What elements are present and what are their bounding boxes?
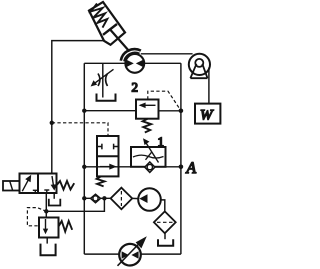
wire (left frame vertical): [83, 63, 85, 254]
check valve (under valve 1): diamond + ball: [145, 162, 155, 173]
hydraulic motor M: [125, 54, 144, 73]
node (pilot tap on cylinder line): [50, 121, 54, 125]
spring (2/2 valve): [97, 176, 105, 186]
spring (cylinder): [91, 4, 108, 28]
left position: arrow P->A: [22, 176, 30, 191]
pilot line (sequence valve, dashed): [27, 208, 46, 226]
tank (throttle): [97, 94, 116, 101]
rope to weight: [208, 68, 210, 104]
spring (3/2 valve): [57, 181, 75, 190]
wire (pilot line to cylinder): [52, 41, 105, 174]
wire (main mid line): [84, 166, 181, 168]
throttle valve (top left, with tank): [102, 63, 104, 97]
right position: arrow A->T: [52, 176, 54, 187]
wire (3/2 bottom port down): [45, 193, 47, 218]
relief valve 2: [136, 100, 159, 119]
pilot line (valve 2, dashed): [148, 91, 181, 110]
svg-text:2: 2: [132, 80, 139, 95]
wire (filter to charge pump): [132, 197, 139, 199]
wire (bottom right): [141, 253, 181, 255]
variable displacement pump: [119, 244, 141, 266]
pulley: [189, 54, 210, 75]
svg-text:A: A: [186, 160, 197, 177]
filter (suction, right): [154, 211, 176, 233]
right position: blocked port: [44, 189, 49, 191]
node (suction / bypass): [102, 196, 106, 200]
piston: [103, 24, 117, 35]
rope (motor to pulley): [141, 53, 193, 55]
pilot line (dashed, to 2/2 valve): [52, 123, 108, 136]
manual 3/2 directional valve: [20, 174, 57, 194]
cylinder C (spring-return, inclined): [89, 2, 130, 52]
wire (bypass to suction line): [46, 198, 104, 211]
wire (suction line): [84, 197, 110, 199]
swash arc (variable-displacement linkage): [121, 49, 141, 61]
wire (valve2 outlet): [159, 110, 181, 112]
pilot-operated 2/2 valve: [97, 136, 119, 176]
sequence valve (bottom left): [39, 218, 59, 238]
node (left frame / suction): [82, 196, 86, 200]
wire (motor right to frame): [144, 62, 181, 64]
tank (sequence valve): [46, 238, 48, 244]
wire (charge pump suction): [161, 200, 165, 211]
blocked ports (top position): [97, 146, 102, 148]
filter (charge line): [111, 188, 133, 210]
node (left frame / valve2 inlet): [82, 109, 86, 113]
spring (valve 2): [143, 119, 152, 133]
tank (suction filter): [164, 233, 166, 239]
arrow (bottom position): [100, 166, 112, 168]
node (right frame / mid line, A): [179, 165, 184, 170]
wire (bottom left): [84, 253, 119, 255]
lever: [3, 181, 20, 191]
node (right frame / valve2): [179, 109, 184, 114]
check valve (charge line): diamond + ball: [91, 194, 101, 203]
charge pump: [138, 188, 161, 211]
node (left frame / mid line): [82, 165, 86, 169]
wire (right frame vertical): [180, 63, 182, 254]
throttle valve 1: [131, 147, 166, 167]
piston rod: [110, 29, 130, 51]
tank (3/2 valve): [53, 193, 55, 199]
left position: blocked port: [33, 189, 38, 191]
svg-text:W: W: [200, 108, 214, 124]
wire (frame top left): [84, 62, 125, 64]
weight W: [195, 104, 220, 124]
node (pilot tap): [44, 209, 48, 213]
wire (valve2 inlet): [84, 110, 136, 112]
spring (sequence valve): [59, 221, 73, 232]
